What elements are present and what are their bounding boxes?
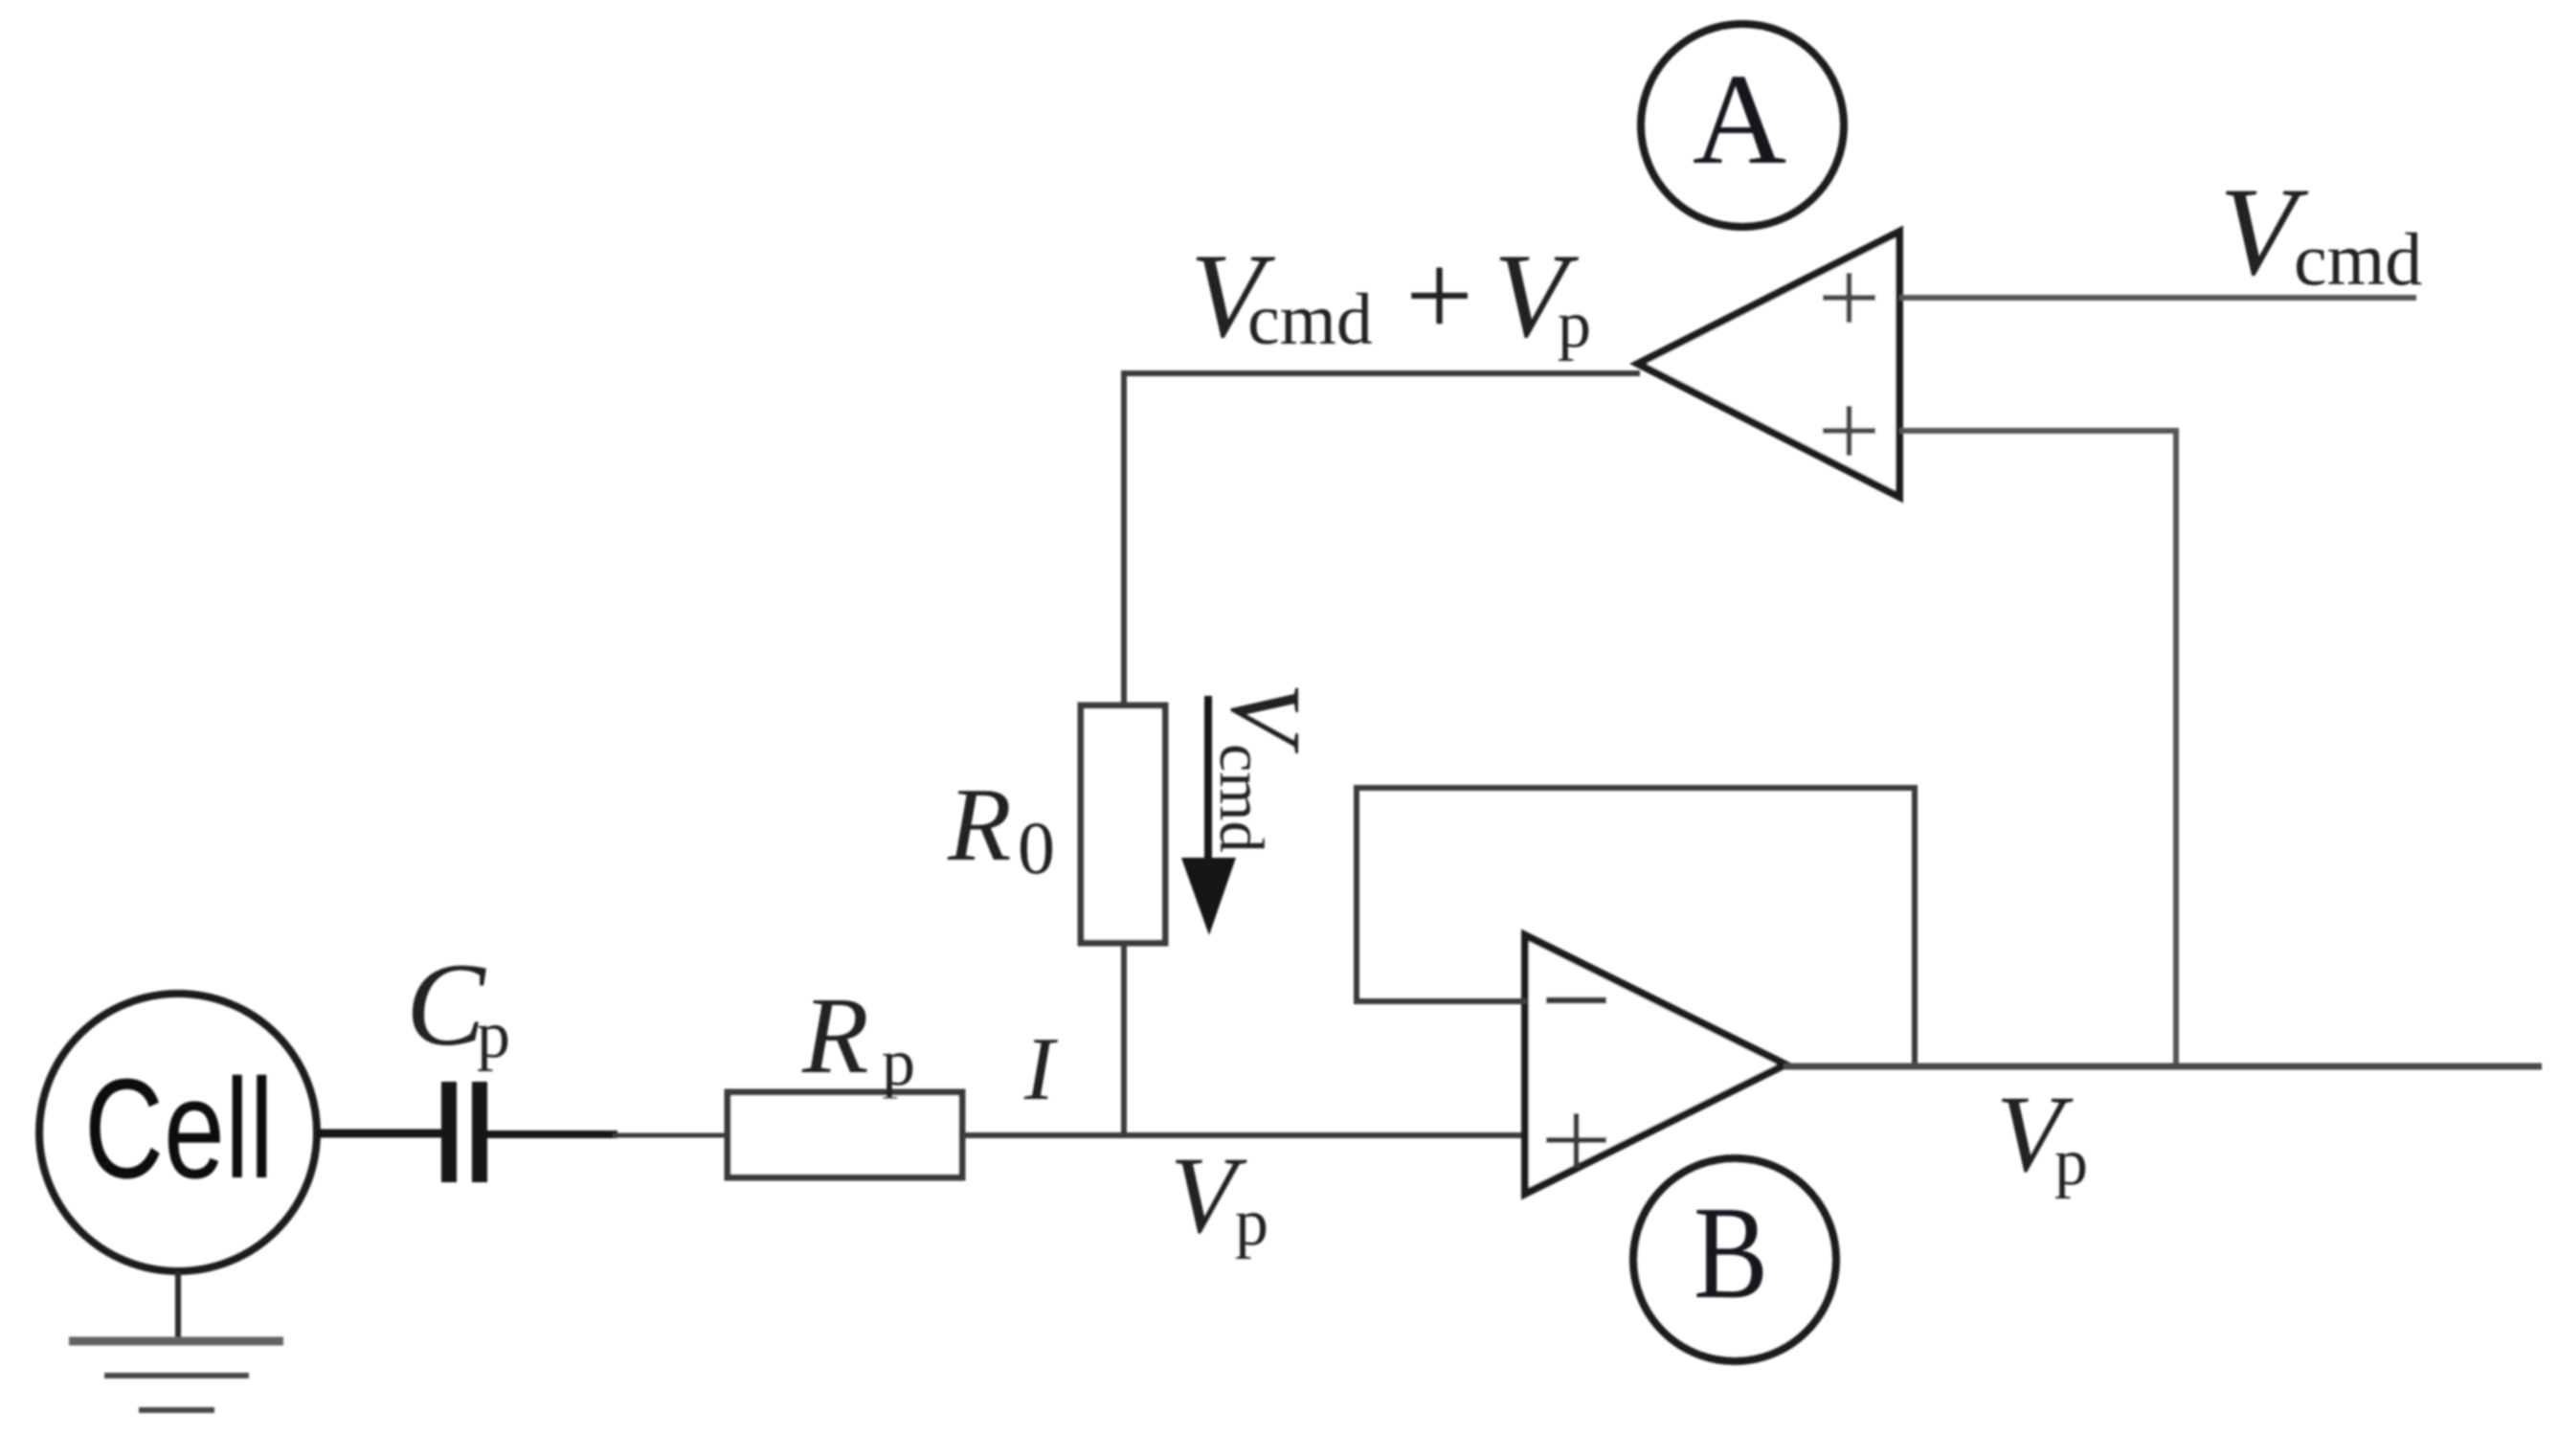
svg-text:Cell: Cell [84,1050,274,1208]
svg-text:cmd: cmd [1247,280,1373,360]
svg-text:R: R [801,974,869,1096]
svg-text:B: B [1694,1179,1768,1327]
svg-text:cmd: cmd [2294,217,2422,301]
svg-text:0: 0 [1018,806,1055,889]
svg-text:p: p [477,998,510,1072]
svg-text:R: R [947,767,1012,883]
svg-text:+: + [1405,230,1473,363]
svg-text:p: p [1235,1186,1268,1260]
svg-text:p: p [1558,288,1591,362]
svg-text:p: p [882,1026,915,1100]
svg-text:I: I [1023,1019,1058,1119]
svg-text:A: A [1693,48,1786,191]
svg-text:cmd: cmd [1206,744,1276,853]
svg-text:p: p [2054,1126,2088,1199]
svg-text:C: C [406,939,486,1070]
